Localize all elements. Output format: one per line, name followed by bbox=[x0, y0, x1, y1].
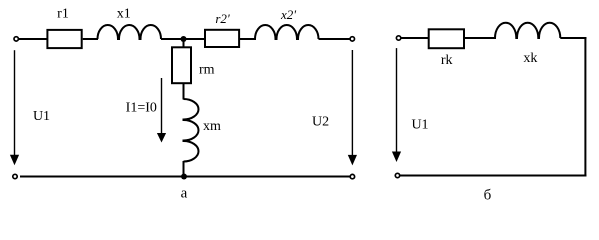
inductor Xk bbox=[495, 23, 560, 38]
wire (right side, circuit b) bbox=[584, 37, 586, 177]
svg-text:U1: U1 bbox=[411, 118, 428, 133]
terminal (top-right, circuit a) bbox=[350, 37, 354, 41]
svg-text:xk: xk bbox=[523, 51, 537, 66]
svg-text:U2: U2 bbox=[312, 115, 329, 130]
wire (x2' to top-right terminal) bbox=[319, 38, 351, 40]
resistor R1 bbox=[47, 30, 81, 48]
wire (r1 to x1) bbox=[83, 38, 98, 40]
wire (x1 to r2', through node) bbox=[161, 38, 205, 40]
wire (terminal to rk) bbox=[401, 37, 429, 39]
svg-text:rm: rm bbox=[199, 63, 215, 78]
svg-text:x1: x1 bbox=[117, 6, 131, 21]
wire (bottom, circuit a) bbox=[20, 176, 350, 178]
resistor R2' bbox=[205, 30, 239, 47]
terminal (bottom-left, circuit a) bbox=[13, 174, 17, 178]
svg-text:r1: r1 bbox=[57, 6, 69, 21]
wire (bottom, circuit b) bbox=[400, 175, 586, 177]
svg-text:а: а bbox=[181, 186, 188, 202]
current arrow I1=I0 bbox=[157, 78, 166, 143]
inductor Xm bbox=[184, 99, 199, 162]
svg-text:x2': x2' bbox=[280, 7, 296, 22]
svg-text:б: б bbox=[484, 188, 492, 204]
inductor X1 bbox=[98, 25, 162, 39]
voltage arrow U1 (circuit b) bbox=[392, 48, 401, 162]
wire (rk to xk) bbox=[465, 37, 496, 39]
wire (xk to top-right corner, circuit b) bbox=[560, 37, 586, 39]
svg-text:r2': r2' bbox=[215, 11, 230, 26]
inductor X2' bbox=[255, 25, 319, 39]
resistor Rm bbox=[172, 47, 191, 83]
svg-text:rk: rk bbox=[441, 53, 453, 68]
terminal (bottom-right, circuit a) bbox=[350, 174, 354, 178]
node (bottom junction) bbox=[181, 174, 187, 180]
resistor Rk bbox=[429, 29, 464, 48]
terminal (bottom-left, circuit b) bbox=[395, 173, 399, 177]
wire (top-left terminal to r1) bbox=[19, 38, 47, 40]
terminal (top-left, circuit b) bbox=[396, 36, 400, 40]
wire (xm to bottom junction) bbox=[183, 161, 185, 177]
wire (node to rm) bbox=[183, 39, 185, 48]
svg-text:U1: U1 bbox=[33, 109, 50, 124]
svg-text:xm: xm bbox=[203, 119, 221, 134]
node (junction x1 / r2' / rm) bbox=[181, 36, 187, 42]
voltage arrow U2 bbox=[348, 50, 357, 165]
voltage arrow U1 (circuit a) bbox=[10, 50, 19, 165]
terminal (top-left, circuit a) bbox=[14, 37, 18, 41]
wire (rm to xm) bbox=[183, 83, 185, 99]
svg-text:I1=I0: I1=I0 bbox=[126, 100, 157, 115]
wire (r2' to x2') bbox=[240, 38, 256, 40]
